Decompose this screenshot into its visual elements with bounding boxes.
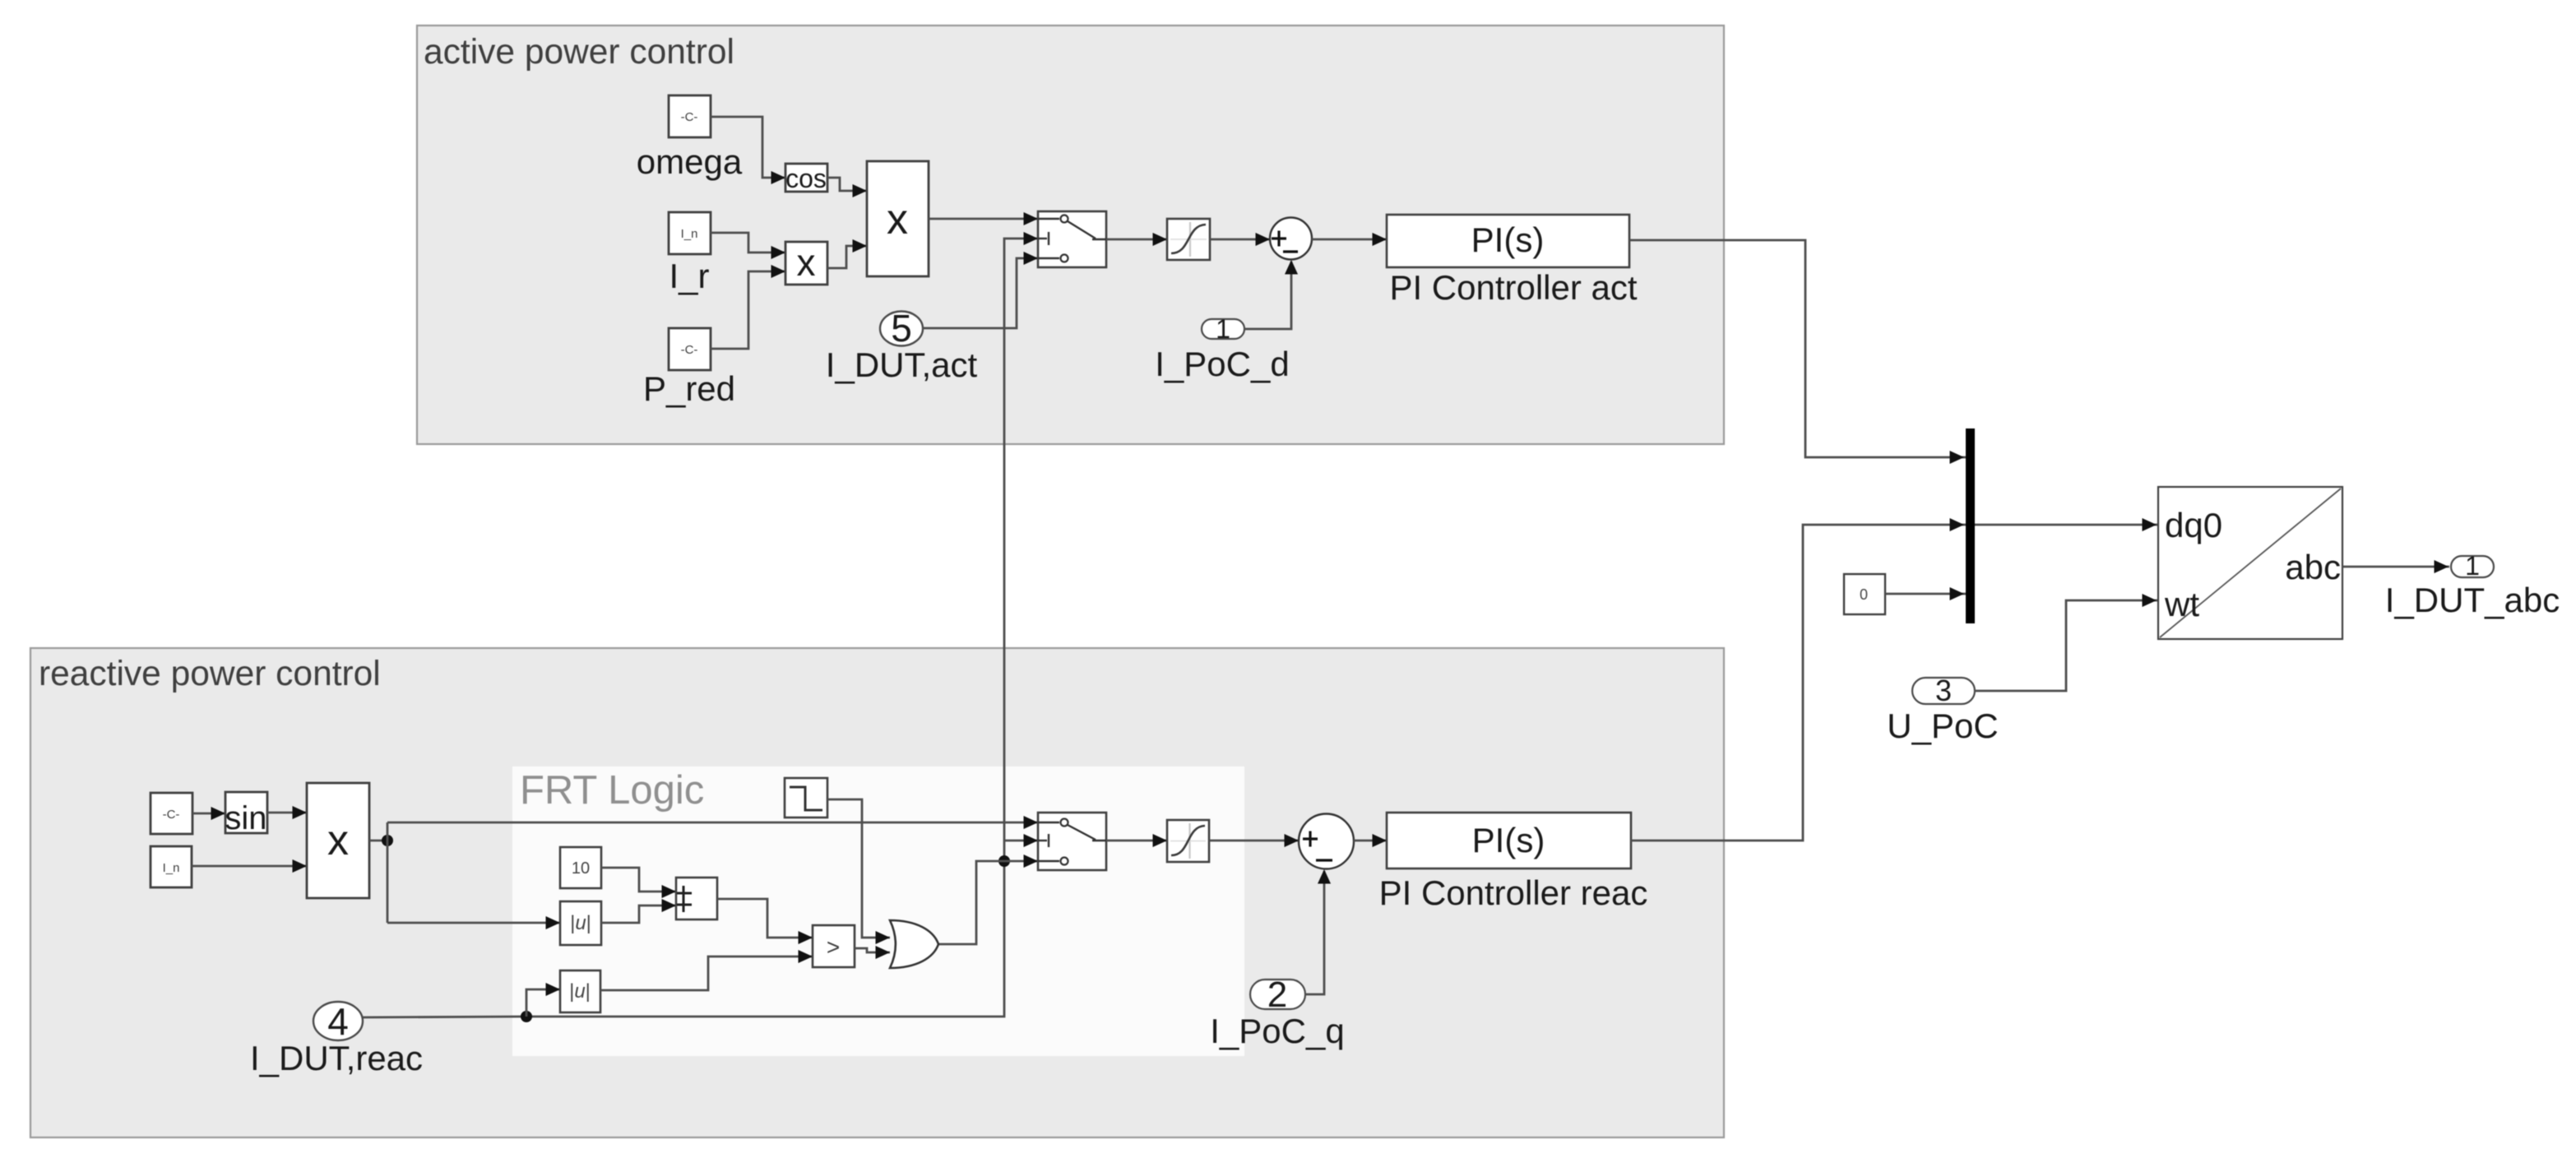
outport 2 I_PoC_q xyxy=(1250,980,1305,1009)
svg-text:PI Controller reac: PI Controller reac xyxy=(1379,873,1648,912)
constant block I_n (reac) xyxy=(151,846,192,887)
wire sum reac to PI reac xyxy=(1354,840,1387,842)
wire X3 to abs1 xyxy=(387,922,560,924)
svg-text:PI(s): PI(s) xyxy=(1471,220,1545,259)
wire 10 to add in1 xyxy=(601,868,676,892)
wire abs1 to add in2 xyxy=(601,906,676,923)
saturation block reac xyxy=(1167,820,1209,862)
wire -C- to sin xyxy=(192,813,225,815)
inport 3 U_PoC xyxy=(1912,678,1975,704)
wire I_PoC_d to sum act minus xyxy=(1244,262,1291,329)
svg-text:>: > xyxy=(827,934,840,960)
relational block greater-than xyxy=(813,925,855,967)
wire abs2 to relational in2 xyxy=(600,957,813,990)
svg-text:I_n: I_n xyxy=(681,227,698,241)
wire abc to outport 1 xyxy=(2342,566,2449,568)
add block xyxy=(676,878,717,919)
svg-text:I_DUT,reac: I_DUT,reac xyxy=(250,1039,423,1077)
svg-text:x: x xyxy=(887,196,908,243)
svg-text:0: 0 xyxy=(1860,586,1868,603)
svg-text:I_DUT,act: I_DUT,act xyxy=(826,345,978,384)
wire OR gate to junction and switch reac in3 xyxy=(938,861,1038,944)
wire saturation reac to sum reac xyxy=(1209,840,1299,842)
wire X3 to switch reac in1 xyxy=(387,822,1038,824)
constant block P_red xyxy=(669,328,711,370)
constant block I_n (act) xyxy=(669,212,711,254)
svg-text:-C-: -C- xyxy=(163,808,180,822)
wire I_DUT,reac long net: inport4 to switches xyxy=(363,239,1038,1017)
wire I_n to product x2 xyxy=(711,233,785,252)
wire cos to product X1 xyxy=(827,178,867,191)
constant block 0 xyxy=(1844,574,1885,614)
trig block cos xyxy=(785,164,827,192)
wire PI act to mux xyxy=(1629,240,1966,457)
outport 1 I_PoC_d xyxy=(1202,319,1244,339)
wire mux to dq0 xyxy=(1975,524,2157,526)
abs block 1 xyxy=(560,901,601,945)
svg-text:10: 10 xyxy=(572,859,590,878)
transform block dq0 to abc xyxy=(2158,487,2342,639)
wire X1 to switch act in1 xyxy=(929,218,1038,220)
wire add to relational xyxy=(717,899,813,938)
trig block sin xyxy=(225,792,267,833)
saturation block act xyxy=(1167,219,1210,260)
svg-text:dq0: dq0 xyxy=(2165,506,2222,544)
svg-text:x: x xyxy=(327,817,349,864)
svg-text:3: 3 xyxy=(1935,674,1952,707)
inport 5 I_DUT,act xyxy=(880,312,923,346)
subsystem area: active power control xyxy=(417,25,1724,444)
svg-text:U_PoC: U_PoC xyxy=(1887,706,1998,745)
wire x2 to product X1 xyxy=(827,246,867,268)
svg-text:I_PoC_d: I_PoC_d xyxy=(1155,345,1289,383)
wire U_PoC to wt input xyxy=(1975,600,2157,691)
wire I_n to product X3 xyxy=(192,865,307,868)
svg-text:omega: omega xyxy=(637,142,743,181)
subsystem area: reactive power control xyxy=(30,648,1724,1137)
wire relational to OR in2 xyxy=(855,948,890,952)
sum block reac xyxy=(1299,814,1354,869)
wire sum act to PI act xyxy=(1312,239,1387,241)
product block X1 xyxy=(867,161,929,276)
wire PI reac to mux xyxy=(1631,525,1966,841)
svg-text:I_DUT_abc: I_DUT_abc xyxy=(2385,581,2560,619)
svg-text:I_PoC_q: I_PoC_q xyxy=(1210,1012,1344,1050)
wire saturation act to sum act xyxy=(1210,239,1270,241)
svg-text:PI Controller act: PI Controller act xyxy=(1389,268,1637,307)
constant block 10 xyxy=(560,847,601,888)
svg-text:abc: abc xyxy=(2285,548,2341,586)
switch block reac xyxy=(1038,813,1106,870)
svg-text:reactive power control: reactive power control xyxy=(39,655,381,693)
wire sin to product X3 xyxy=(267,812,307,814)
inport 4 I_DUT,reac xyxy=(313,1002,363,1040)
OR gate xyxy=(890,920,938,968)
sum block act xyxy=(1270,218,1312,260)
svg-text:|u|: |u| xyxy=(570,912,591,934)
wire branch to abs2 xyxy=(526,989,560,1017)
svg-text:PI(s): PI(s) xyxy=(1472,821,1545,859)
junction dot control net xyxy=(998,855,1010,867)
svg-text:FRT Logic: FRT Logic xyxy=(520,768,704,813)
svg-text:-C-: -C- xyxy=(681,343,698,357)
svg-text:cos: cos xyxy=(785,164,827,193)
wire switch act to saturation act xyxy=(1106,239,1167,241)
svg-text:2: 2 xyxy=(1267,975,1287,1015)
wire inport5 to switch act in3 xyxy=(923,258,1038,328)
svg-text:I_n: I_n xyxy=(163,861,180,875)
wire 0 to mux xyxy=(1885,593,1966,595)
svg-text:5: 5 xyxy=(891,307,912,350)
constant block -C- (reac) xyxy=(151,793,192,834)
mux bus bar xyxy=(1966,428,1975,623)
product block X3 xyxy=(307,783,369,898)
step block xyxy=(785,778,827,818)
svg-text:I_r: I_r xyxy=(669,257,709,295)
wire step to OR in1 xyxy=(827,799,890,938)
wire I_PoC_q to sum reac minus xyxy=(1305,871,1324,994)
switch block act xyxy=(1038,211,1106,267)
PI controller act block xyxy=(1387,215,1629,267)
wire switch reac to saturation reac xyxy=(1106,840,1167,842)
svg-text:|u|: |u| xyxy=(569,980,591,1003)
svg-text:-C-: -C- xyxy=(681,110,698,124)
junction dot on I_DUT,reac wire xyxy=(521,1011,532,1022)
wire branch to switch reac in2 xyxy=(1004,840,1038,842)
svg-text:wt: wt xyxy=(2164,585,2199,623)
outport 1 I_DUT_abc xyxy=(2451,556,2494,577)
wire omega to cos xyxy=(711,117,785,178)
svg-text:1: 1 xyxy=(1216,314,1230,344)
area: FRT Logic xyxy=(512,767,1244,1056)
svg-text:active power control: active power control xyxy=(424,33,734,72)
svg-text:1: 1 xyxy=(2465,551,2480,581)
svg-text:x: x xyxy=(797,241,816,284)
svg-text:P_red: P_red xyxy=(643,369,735,408)
product block x2 xyxy=(785,242,827,285)
constant block omega xyxy=(669,95,711,137)
wire X3 output with branches xyxy=(369,840,387,842)
abs block 2 xyxy=(560,970,600,1012)
PI controller reac block xyxy=(1387,813,1631,868)
svg-text:4: 4 xyxy=(327,1000,349,1043)
svg-text:sin: sin xyxy=(225,800,266,836)
wire P_red to product x2 xyxy=(711,271,785,349)
